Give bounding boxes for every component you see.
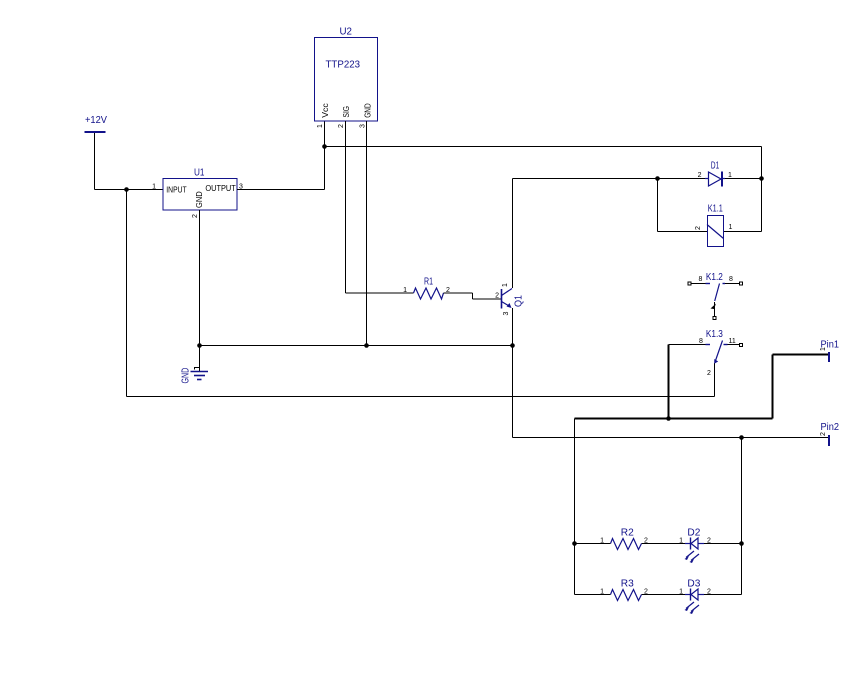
svg-text:D3: D3	[687, 579, 700, 590]
connector Pin1	[820, 340, 839, 363]
resistor R2	[600, 528, 648, 550]
svg-text:3: 3	[360, 124, 367, 128]
wire U1 GND down	[199, 210, 201, 371]
svg-text:1: 1	[679, 538, 683, 545]
svg-text:11: 11	[729, 338, 736, 345]
wire D1 right	[725, 178, 762, 180]
svg-text:2: 2	[698, 172, 702, 179]
svg-text:INPUT: INPUT	[166, 186, 186, 195]
wire LED left rail	[574, 419, 576, 595]
svg-text:2: 2	[644, 538, 648, 545]
svg-text:2: 2	[192, 214, 199, 218]
diode D2 LED	[679, 528, 711, 564]
node R2 row left junction	[572, 541, 577, 546]
node GND rail at U1 GND	[197, 343, 202, 348]
svg-text:D2: D2	[687, 528, 700, 539]
wire +12V down-rail to K1.3 pole	[127, 190, 715, 397]
node K1.3 branch junction	[666, 416, 671, 421]
svg-text:TTP223: TTP223	[326, 60, 361, 71]
svg-text:1: 1	[820, 347, 827, 351]
svg-text:2: 2	[707, 538, 711, 545]
wire U1 output to U2 Vcc	[237, 121, 325, 190]
svg-text:2: 2	[707, 589, 711, 596]
svg-text:GND: GND	[181, 368, 192, 384]
svg-text:1: 1	[728, 172, 732, 179]
wire GND rail	[200, 345, 513, 347]
wire R2 row	[575, 543, 742, 545]
ground	[181, 368, 208, 384]
svg-text:U2: U2	[340, 27, 353, 38]
wire R3 row	[575, 594, 742, 596]
resistor R1	[403, 277, 450, 300]
node GND rail at U2 GND	[364, 343, 369, 348]
wire Pin2 line	[513, 437, 829, 439]
relay coil K1.1	[695, 204, 733, 247]
svg-text:1: 1	[317, 124, 324, 128]
svg-text:2: 2	[495, 293, 499, 300]
svg-text:1: 1	[403, 287, 407, 294]
relay contact K1.3	[669, 329, 743, 377]
transistor Q1	[495, 283, 524, 316]
svg-text:SIG: SIG	[342, 106, 351, 118]
svg-text:1: 1	[600, 538, 604, 545]
wire +12V lead	[95, 132, 164, 190]
svg-text:1: 1	[502, 283, 509, 287]
svg-text:K1.2: K1.2	[706, 272, 723, 283]
wire Q1 emitter down to Pin2 line	[512, 308, 514, 438]
svg-text:2: 2	[695, 226, 702, 230]
svg-text:OUTPUT: OUTPUT	[205, 184, 236, 193]
node R2 row right junction	[739, 541, 744, 546]
svg-text:K1.3: K1.3	[706, 329, 723, 340]
connector Pin2	[820, 422, 839, 446]
svg-text:8: 8	[699, 276, 703, 283]
svg-text:1: 1	[729, 224, 733, 231]
wire R1 to Q1 base	[444, 293, 502, 299]
power flag +12V	[85, 115, 108, 132]
svg-text:1: 1	[152, 184, 156, 191]
svg-text:Vcc: Vcc	[321, 103, 330, 118]
IC U1 voltage regulator	[152, 168, 243, 219]
svg-text:R3: R3	[621, 579, 634, 590]
node junction at +12V branch	[124, 187, 129, 192]
svg-text:2: 2	[338, 124, 345, 128]
node Pin2 junction	[739, 435, 744, 440]
wire Pin1 line (thick)	[575, 355, 829, 419]
wire U2 GND down	[366, 121, 368, 346]
wire Vcc top rail	[325, 147, 762, 232]
svg-text:K1.1: K1.1	[708, 204, 723, 215]
diode D3 LED	[679, 579, 711, 615]
svg-text:2: 2	[644, 589, 648, 596]
wire K1.1 left branch	[658, 179, 708, 232]
wire U2 SIG to R1	[346, 121, 414, 293]
svg-text:U1: U1	[194, 168, 205, 179]
svg-text:Pin2: Pin2	[821, 422, 840, 433]
svg-text:R1: R1	[424, 277, 433, 288]
node D1 left junction	[655, 176, 660, 181]
svg-text:1: 1	[679, 589, 683, 596]
svg-text:8: 8	[699, 338, 703, 345]
relay contact K1.2	[688, 272, 743, 320]
node GND rail at Q1 emitter	[510, 343, 515, 348]
wire LED right rail	[741, 438, 743, 595]
node D1 right junction	[759, 176, 764, 181]
resistor R3	[600, 579, 648, 601]
svg-text:+12V: +12V	[85, 115, 107, 126]
IC U2 TTP223 touch sensor	[315, 27, 378, 129]
diode D1	[698, 161, 732, 187]
wire K1.3 left down (thick)	[668, 345, 670, 419]
svg-text:GND: GND	[195, 191, 204, 208]
svg-text:GND: GND	[363, 103, 372, 118]
wire Q1 collector up and to D1	[513, 179, 706, 289]
svg-text:3: 3	[503, 312, 510, 316]
svg-text:8: 8	[729, 276, 733, 283]
node Vcc rail junction	[322, 144, 327, 149]
svg-text:1: 1	[600, 589, 604, 596]
svg-text:D1: D1	[711, 161, 720, 172]
wire K1.1 right	[724, 231, 762, 233]
svg-text:Q1: Q1	[513, 295, 524, 307]
svg-text:2: 2	[707, 370, 711, 377]
svg-text:2: 2	[820, 432, 827, 436]
svg-text:R2: R2	[621, 528, 634, 539]
